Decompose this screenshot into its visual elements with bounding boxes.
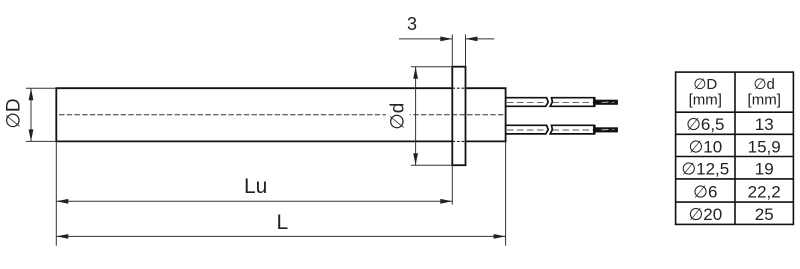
size table [676, 72, 794, 224]
svg-text:19: 19 [755, 160, 774, 179]
insulation end cap [593, 125, 596, 134]
Od arrowheads [413, 67, 418, 79]
svg-text:13: 13 [755, 115, 774, 134]
terminal end section [466, 88, 506, 141]
dimension Lu [56, 141, 452, 245]
svg-text:∅20: ∅20 [688, 205, 722, 224]
svg-text:L: L [277, 211, 289, 234]
wire 2 (bottom lead) [506, 125, 618, 134]
svg-text:3: 3 [407, 14, 417, 34]
svg-text:[mm]: [mm] [748, 92, 781, 109]
bare wire tip (crimped, solid) [595, 100, 618, 105]
svg-text:25: 25 [755, 205, 774, 224]
insulation end cap [593, 97, 596, 106]
svg-text:∅6,5: ∅6,5 [686, 115, 724, 134]
svg-text:∅12,5: ∅12,5 [681, 160, 729, 179]
svg-text:∅10: ∅10 [688, 137, 722, 156]
table header [689, 76, 781, 109]
heater body tube [56, 88, 452, 141]
svg-text:∅d: ∅d [388, 103, 409, 130]
svg-text:∅D: ∅D [4, 98, 25, 128]
wire 1 (top lead) [506, 97, 618, 106]
flange collar [452, 67, 465, 166]
table data [681, 115, 780, 224]
svg-text:∅6: ∅6 [693, 182, 717, 201]
dimension Od (flange): extension+dim lines [411, 67, 453, 166]
svg-text:22,2: 22,2 [748, 182, 781, 201]
svg-text:15,9: 15,9 [748, 137, 781, 156]
dimension 3 (flange thickness) [399, 35, 494, 67]
dimension L [56, 141, 505, 245]
svg-text:Lu: Lu [244, 175, 267, 198]
bare wire tip (crimped, solid) [595, 127, 618, 132]
hidden body lines through flange [452, 88, 465, 141]
svg-text:[mm]: [mm] [689, 92, 722, 109]
mask under Od label [386, 96, 410, 133]
svg-text:∅D: ∅D [693, 76, 717, 93]
OD arrowheads [29, 88, 34, 100]
centerline [59, 114, 504, 116]
dimension OD (left): extension lines [26, 88, 57, 141]
svg-text:∅d: ∅d [753, 76, 774, 93]
